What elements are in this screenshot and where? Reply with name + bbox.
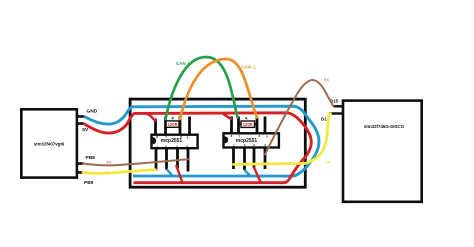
svg-text:TX: TX	[105, 171, 110, 175]
svg-text:PB8: PB8	[86, 155, 96, 161]
wire VDD drop U4 pin3 to red rail	[254, 167, 261, 183]
pin D14 of U3	[321, 114, 343, 122]
svg-text:120R: 120R	[168, 122, 178, 127]
transceiver U4 mcp2551 (right) pins	[232, 117, 266, 171]
svg-text:stm32f407vgt6: stm32f407vgt6	[34, 142, 65, 147]
board U3 stm32f746G-DISCO	[343, 101, 422, 202]
svg-text:PB9: PB9	[84, 180, 94, 186]
wire CAN_H green arc	[166, 57, 238, 119]
transceiver U1 mcp2551 (left) pins	[156, 117, 190, 172]
wire red tap rail to U1 pin8	[144, 113, 157, 121]
transceiver U1 mcp2551 (left) body	[152, 135, 198, 149]
pin 5V of U2	[77, 124, 89, 134]
svg-text:CAN_H: CAN_H	[176, 61, 191, 66]
svg-text:stm32f746G-DISCO: stm32f746G-DISCO	[364, 124, 405, 129]
transceiver U4 mcp2551 (right) body	[224, 133, 279, 147]
resistor R2 120R	[239, 117, 257, 128]
wire CAN_L orange arc	[180, 59, 257, 119]
pin D15 of U3	[330, 98, 343, 106]
wire 5V red: U2 5V to bus rails loop	[84, 113, 312, 183]
svg-text:5V: 5V	[82, 127, 89, 133]
svg-text:GND: GND	[87, 108, 98, 114]
board U2 stm32f407vgt6	[21, 109, 77, 177]
pin PB9 of U2	[77, 173, 94, 186]
wire red tap rail to U4 pin8	[222, 113, 232, 120]
svg-text:CAN_L: CAN_L	[242, 64, 257, 69]
wire TX yellow: U2 PB9 to U1 pin1	[83, 170, 156, 174]
wire GND blue: U2 GND to bus rails loop	[84, 106, 319, 176]
wire VSS drop U4 pin2 to blue rail	[245, 170, 252, 177]
wire RX brown: U4 pin4 to U3 D15	[265, 80, 334, 154]
wire TX yellow: U4 pin1 to U3 D14	[234, 114, 331, 165]
wire RX brown: U2 PB8 to U1 pin4	[83, 159, 188, 165]
svg-text:mcp2551: mcp2551	[161, 138, 183, 144]
svg-text:RX: RX	[324, 78, 330, 82]
CAN bus enclosure box	[130, 99, 305, 187]
svg-text:TX: TX	[326, 161, 331, 165]
wire VSS drop U1 pin2 to blue rail	[167, 169, 174, 176]
svg-text:RX: RX	[107, 160, 113, 164]
pin GND of U2	[77, 108, 98, 116]
wire VDD drop U1 pin3 to red rail	[176, 165, 183, 183]
svg-text:120R: 120R	[243, 122, 253, 127]
pin PB8 of U2	[77, 155, 95, 164]
resistor R1 120R	[165, 117, 181, 128]
